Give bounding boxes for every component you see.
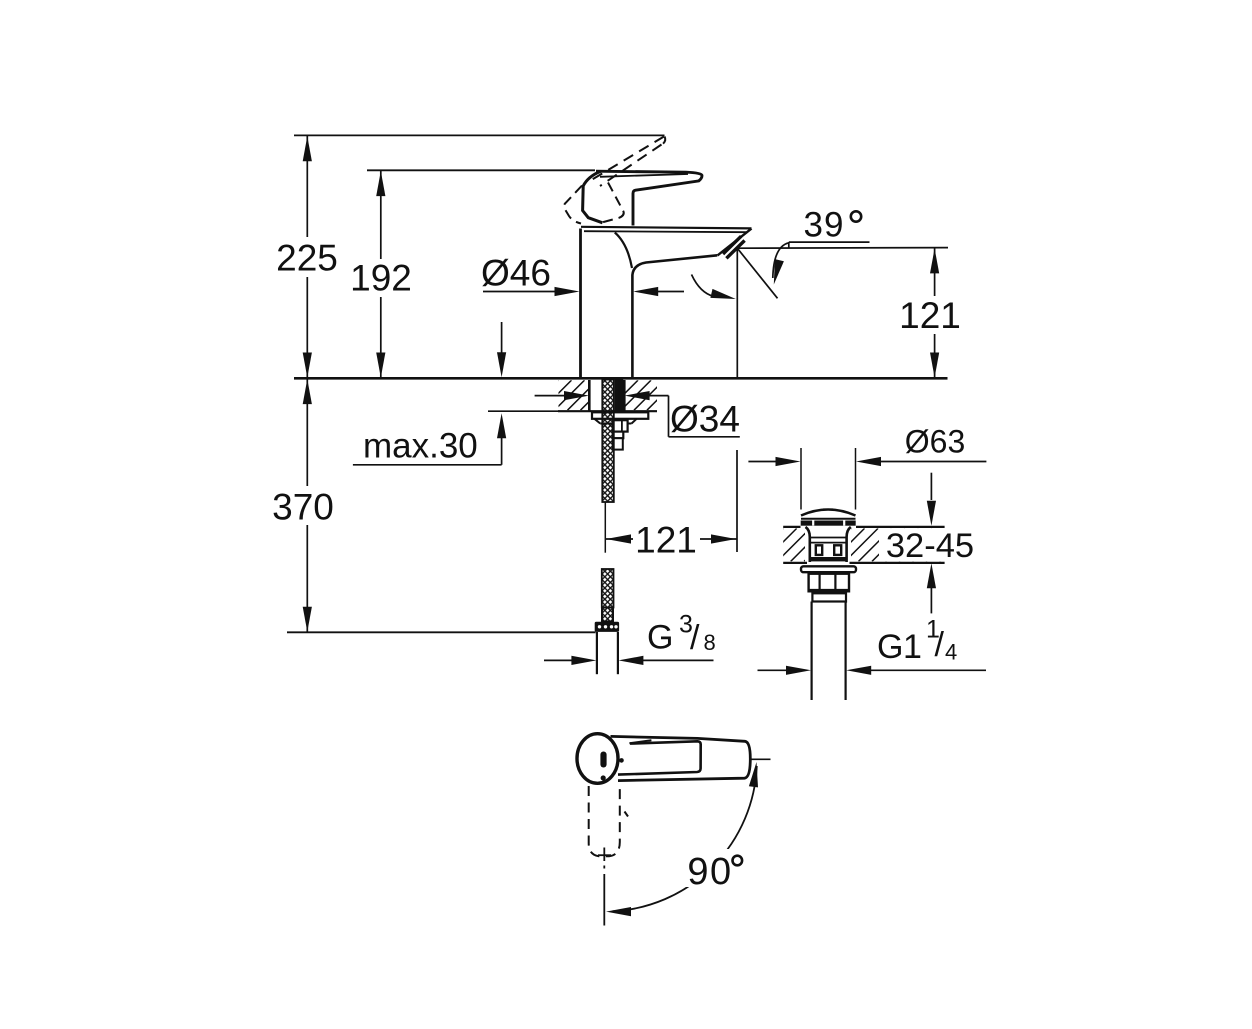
39deg dimension arc <box>773 243 789 278</box>
top view: knob slot mark <box>600 752 606 768</box>
dimension O46 arrows <box>483 291 560 293</box>
svg-text:192: 192 <box>350 257 412 298</box>
handle pivot body <box>583 171 603 222</box>
drain flange ring below slab <box>801 566 856 572</box>
svg-text:32-45: 32-45 <box>886 527 974 565</box>
hose end ferrule <box>602 608 613 622</box>
faucet body column left edge <box>579 229 582 378</box>
spout underside and column right edge <box>632 255 717 377</box>
drain tailpipe <box>810 602 812 701</box>
drain slab bottom line <box>783 562 807 564</box>
svg-text:Ø46: Ø46 <box>481 253 551 294</box>
dimension 370 vertical line <box>306 379 308 486</box>
raised handle dashed: knob front edge <box>603 183 624 223</box>
svg-text:/: / <box>690 619 700 657</box>
top view: inner notch line <box>629 740 651 743</box>
dimension 225 vertical line <box>306 135 308 237</box>
drain body through slab <box>806 527 810 562</box>
drain slab hatching right <box>818 528 1000 561</box>
drain cap dome <box>801 510 856 516</box>
mounting hole left edge <box>588 380 591 411</box>
max.30 lower arrow + leader <box>353 464 502 466</box>
counter slab hatching right <box>595 380 716 410</box>
mounting nut upper <box>613 420 628 431</box>
raised handle dashed: lever top line <box>588 137 664 183</box>
svg-text:225: 225 <box>276 237 338 278</box>
flexible supply hose lower segment <box>602 569 614 608</box>
aerator <box>723 236 741 254</box>
90deg reference tick <box>752 758 771 760</box>
hose end nut <box>595 622 619 632</box>
counter slab hatching left <box>529 380 637 410</box>
dimension 121 right vertical <box>934 248 936 296</box>
drain hex nut <box>809 574 849 592</box>
dimension O34 arrows and leader <box>535 395 564 397</box>
drain slab top line <box>783 526 800 528</box>
svg-text:G1: G1 <box>877 628 921 666</box>
39deg angle: vertical stream line <box>736 248 738 377</box>
drain body slots <box>816 545 822 555</box>
top view: dashed handle projection <box>589 786 620 856</box>
svg-text:370: 370 <box>272 487 334 528</box>
svg-text:max.30: max.30 <box>363 426 478 465</box>
deck / counter top line <box>294 377 948 380</box>
raised handle dashed: lever bottom line <box>600 145 662 187</box>
mounting hole right edge <box>623 380 626 411</box>
hose centerline extension <box>604 502 606 553</box>
90deg arc <box>613 766 757 911</box>
39deg angle: diagonal stream line <box>737 248 777 298</box>
dimension O63 extension lines <box>800 448 802 510</box>
wire reference line (lever height 192) <box>367 169 595 171</box>
svg-text:90: 90 <box>687 851 732 893</box>
svg-text:Ø34: Ø34 <box>670 399 740 440</box>
body silhouette transition curve <box>615 233 632 269</box>
svg-text:39: 39 <box>804 206 845 245</box>
faucet body top edge double line <box>581 227 752 229</box>
dimension 32-45 bottom arrow <box>930 588 932 613</box>
dimension 32-45 top arrow <box>930 473 932 500</box>
top view: handle paddle outline <box>611 736 751 780</box>
spout tip face <box>718 229 752 256</box>
washer under deck <box>592 412 648 419</box>
flexible supply hose upper segment <box>602 380 614 503</box>
handle lever (solid) <box>596 171 702 225</box>
wire slab bottom extension line <box>488 410 560 412</box>
dimension 192 vertical line <box>380 170 382 259</box>
svg-text:G: G <box>647 619 673 657</box>
G3/8 connector pipe <box>596 632 598 674</box>
top view: handle knob circle <box>577 734 618 784</box>
svg-text:121: 121 <box>635 520 697 561</box>
svg-text:8: 8 <box>704 630 716 655</box>
raised handle dashed: tip cap <box>662 137 666 146</box>
svg-text:4: 4 <box>945 639 957 664</box>
counter slab bottom line <box>558 410 657 412</box>
raised handle dashed: knob back arc <box>564 186 582 224</box>
threaded mounting stud <box>615 380 624 412</box>
dimension G1 1/4 arrows <box>758 669 787 671</box>
svg-text:Ø63: Ø63 <box>905 424 965 460</box>
mounting nut lower <box>613 432 624 439</box>
washer chamfer <box>595 419 601 424</box>
dimension G3/8 arrows <box>544 659 572 661</box>
max.30 upper arrow <box>501 322 503 354</box>
curved arrow water stream direction <box>692 275 715 297</box>
svg-text:/: / <box>935 626 945 664</box>
top view: knob dot marks <box>619 758 624 763</box>
svg-text:121: 121 <box>899 295 961 336</box>
top view: centerline <box>598 854 611 856</box>
dimension O63 arrows <box>748 461 776 463</box>
wire top reference line (raised lever height 225) <box>294 134 665 136</box>
dimension 121 middle <box>606 534 631 543</box>
wire 370 bottom reference line <box>287 631 596 633</box>
top view: paddle inner outline <box>618 741 701 774</box>
drain slab hatching left <box>750 528 864 561</box>
drain washer <box>812 593 846 601</box>
39deg leader + reference line 121 top <box>737 247 948 250</box>
